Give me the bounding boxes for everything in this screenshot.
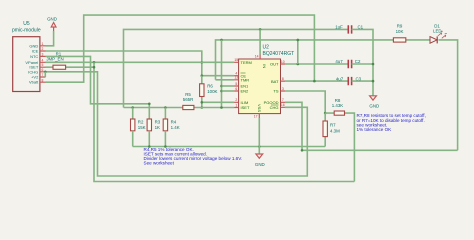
svg-text:GND: GND <box>255 162 265 167</box>
wire OUT net <box>285 63 348 65</box>
resistor R9 <box>393 24 405 42</box>
wire NTC <box>46 56 150 119</box>
svg-text:1% tolerance OK: 1% tolerance OK <box>357 127 393 132</box>
capacitor C1 <box>335 25 363 34</box>
wire PGOOD <box>285 102 458 150</box>
resistor R5 <box>183 92 194 110</box>
svg-text:8: 8 <box>282 77 284 81</box>
U2 pin names <box>241 60 280 112</box>
wire Vbatt riser to top <box>46 15 315 82</box>
svg-text:D1: D1 <box>434 23 440 28</box>
wire VPanel / TERM <box>46 61 235 63</box>
svg-text:R4: R4 <box>171 119 177 124</box>
node BAT <box>313 80 316 83</box>
wire ICE to CE <box>46 51 202 76</box>
node R4 top <box>164 106 167 109</box>
U5 pin numbers <box>42 42 44 82</box>
svg-text:10: 10 <box>281 60 285 64</box>
svg-text:U5: U5 <box>23 21 30 27</box>
svg-text:100K: 100K <box>207 89 217 94</box>
U5 pin names <box>25 43 39 84</box>
resistor R3 <box>147 119 161 131</box>
node ISET junction <box>201 106 204 109</box>
note block 2 <box>357 113 426 132</box>
svg-text:15K: 15K <box>138 125 146 130</box>
svg-text:R3: R3 <box>155 119 161 124</box>
node OUT riser <box>297 63 300 66</box>
wire R4 stub <box>164 108 166 120</box>
svg-text:TMR: TMR <box>241 78 250 83</box>
node ILIM junction <box>201 101 204 104</box>
resistor R2 <box>131 119 146 131</box>
node VPanel branch <box>93 61 96 64</box>
capacitor C2 <box>335 59 361 68</box>
node EN1 <box>220 85 223 88</box>
svg-text:R2: R2 <box>138 119 144 124</box>
module U5 <box>12 21 41 91</box>
U5 pin stubs <box>40 46 46 82</box>
svg-text:7: 7 <box>282 98 284 102</box>
wire EN1 <box>222 85 235 87</box>
svg-text:BQ24074RGT: BQ24074RGT <box>263 51 295 57</box>
svg-text:OUT: OUT <box>270 62 279 67</box>
svg-text:ICE: ICE <box>32 49 39 54</box>
svg-text:GND: GND <box>47 17 57 22</box>
svg-text:17: 17 <box>254 115 258 119</box>
svg-text:4u7: 4u7 <box>336 76 344 81</box>
diode D1 LED <box>430 23 447 43</box>
node CE junction <box>201 74 204 77</box>
node VSS bus <box>258 145 261 148</box>
node TS R7 R8 <box>324 112 327 115</box>
IC U2 <box>239 45 295 114</box>
wire resistor bottoms to bus <box>133 131 166 147</box>
svg-text:R8: R8 <box>335 98 341 103</box>
resistor R1 JMP_EN <box>46 52 95 70</box>
wire TMR net <box>216 40 458 150</box>
wire IN pin drop <box>259 29 261 54</box>
wire BAT net <box>285 80 348 82</box>
svg-text:5: 5 <box>42 63 44 67</box>
svg-text:U2: U2 <box>263 45 270 51</box>
svg-text:1.43K: 1.43K <box>332 103 344 108</box>
svg-text:14: 14 <box>255 55 259 59</box>
node OUT top <box>297 39 300 42</box>
svg-text:3: 3 <box>282 87 284 91</box>
svg-text:TERM: TERM <box>241 60 252 65</box>
node IN junction <box>259 28 262 31</box>
svg-text:1K: 1K <box>155 125 160 130</box>
svg-text:BAT: BAT <box>271 79 279 84</box>
node R3 branch <box>148 103 151 106</box>
svg-text:4u7: 4u7 <box>335 59 343 64</box>
svg-text:5: 5 <box>235 82 237 86</box>
svg-text:CHG: CHG <box>270 105 279 110</box>
node JMP joins rail <box>93 66 96 69</box>
wire ICHG to inner rail <box>46 72 308 176</box>
node EN2 <box>220 90 223 93</box>
ground bus <box>133 146 326 148</box>
svg-text:JMP_EN: JMP_EN <box>46 56 63 61</box>
svg-text:1: 1 <box>235 103 237 107</box>
resistor R8 <box>325 98 354 182</box>
svg-text:R6: R6 <box>207 84 213 89</box>
svg-text:NTC: NTC <box>30 54 38 59</box>
node C3 gnd <box>372 80 375 83</box>
svg-text:6: 6 <box>235 87 237 91</box>
svg-text:See worksheet: See worksheet <box>144 161 175 166</box>
svg-text:1.4K: 1.4K <box>171 125 180 130</box>
wire EN2 <box>222 90 235 92</box>
svg-text:16: 16 <box>281 103 285 107</box>
resistor R7 <box>323 113 340 146</box>
U2 top pin IN stub <box>259 55 261 60</box>
svg-text:13: 13 <box>234 76 238 80</box>
svg-text:IN: IN <box>262 64 267 68</box>
wire TS net <box>285 91 325 113</box>
svg-text:VSS: VSS <box>257 104 262 112</box>
node ICHG tie <box>44 71 47 74</box>
svg-text:1uF: 1uF <box>335 25 343 30</box>
wire ILIM <box>202 101 234 103</box>
ground flag VSS <box>255 154 265 167</box>
wire CHG to LED rail <box>285 107 307 150</box>
svg-text:pmic-module: pmic-module <box>12 28 41 34</box>
node TERM crossing <box>201 61 204 64</box>
svg-text:Vbatt: Vbatt <box>29 80 39 85</box>
wire CE <box>202 75 234 77</box>
wire GND pin to flag <box>46 31 54 46</box>
wire R2 stub <box>132 108 134 120</box>
node EN riser top <box>220 39 223 42</box>
wire tie ICHG to +V2 <box>44 72 46 77</box>
node C2 gnd <box>372 63 375 66</box>
svg-text:4.3M: 4.3M <box>330 128 340 133</box>
svg-text:LED: LED <box>433 29 442 34</box>
svg-text:15: 15 <box>234 58 238 62</box>
wire VSS down <box>258 118 260 154</box>
wire ISET line <box>124 107 235 109</box>
wire EN riser <box>221 40 223 108</box>
note block 1 <box>144 147 243 166</box>
node R3 bus <box>148 145 151 148</box>
U2 left pin stubs <box>234 62 239 107</box>
U2 right pin stubs <box>281 64 286 107</box>
wire IN net <box>124 29 348 107</box>
GND power flag top-left <box>47 17 57 32</box>
node R4 bus <box>164 145 167 148</box>
node PGOOD rail <box>301 149 304 152</box>
svg-text:10K: 10K <box>396 29 404 34</box>
capacitor C3 <box>336 76 362 85</box>
svg-text:GND: GND <box>369 103 379 108</box>
svg-text:R7: R7 <box>330 122 336 127</box>
resistor R4 <box>163 119 180 131</box>
U2 bottom pin VSS stub <box>258 114 260 118</box>
U2 pin numbers <box>234 55 284 119</box>
wire caps right to gnd riser <box>352 29 373 95</box>
ground flag caps <box>369 96 379 109</box>
node EN riser bottom <box>220 106 223 109</box>
svg-text:TS: TS <box>273 89 278 94</box>
wire OUT riser <box>297 40 299 64</box>
svg-text:ISET: ISET <box>241 105 250 110</box>
resistor R6 <box>200 76 218 108</box>
node R2 top <box>131 106 134 109</box>
svg-text:2: 2 <box>235 98 237 102</box>
svg-text:R9: R9 <box>397 24 403 29</box>
svg-text:565R: 565R <box>183 97 194 102</box>
svg-text:EN2: EN2 <box>241 89 250 94</box>
wire VPanel to bottom rail <box>94 62 354 181</box>
